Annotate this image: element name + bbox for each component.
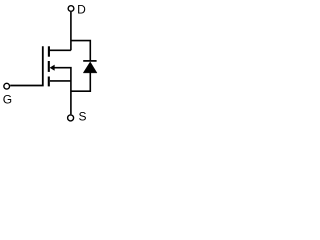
terminal G <box>4 83 10 89</box>
terminal D <box>68 6 74 12</box>
wire diode anode down-left to source <box>71 73 90 92</box>
svg-text:G: G <box>3 92 12 106</box>
wire drain branch to diode cathode <box>71 41 90 61</box>
svg-text:S: S <box>79 109 87 123</box>
transistor Q1 body arrow head <box>50 65 55 71</box>
transistor Q1 channel middle dash <box>48 61 50 72</box>
transistor Q1 channel bottom dash <box>48 77 50 87</box>
wire drain vertical <box>70 12 72 50</box>
wire channel bottom to source vertical <box>50 80 71 82</box>
wire body arrow to source corner <box>54 68 71 115</box>
diode D1 anode triangle <box>83 62 97 73</box>
diode D1 cathode bar <box>83 60 96 62</box>
wire drain to channel top <box>49 49 71 51</box>
transistor Q1 gate plate and gate lead <box>10 46 43 85</box>
terminal S <box>68 115 74 121</box>
transistor Q1 channel top dash <box>48 46 50 56</box>
svg-text:D: D <box>77 3 86 17</box>
